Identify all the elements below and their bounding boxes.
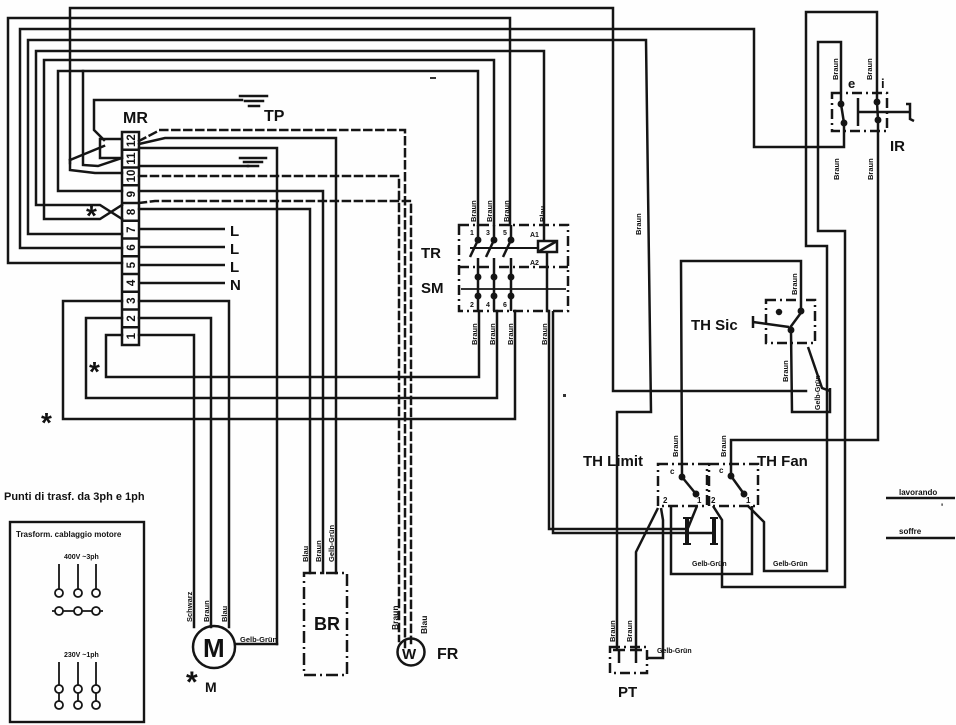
IR contact e bbox=[839, 102, 846, 125]
dashed wire MR cell12 to FR fan lead bbox=[139, 130, 405, 647]
label BR bbox=[314, 614, 340, 634]
TH Sic switch box bbox=[766, 300, 815, 343]
rotated wire labels Braun above TR bbox=[469, 200, 547, 222]
svg-text:A1: A1 bbox=[530, 232, 539, 239]
wire MR cell1 right to motor M black lead bbox=[139, 335, 194, 627]
wire TH Limit pole1 slant to SM pair bar bbox=[688, 506, 697, 528]
wire MR cell8 to TR pole2 via left nest (crossing) bbox=[44, 60, 494, 225]
svg-text:Gelb-Grün: Gelb-Grün bbox=[657, 648, 692, 655]
svg-text:Blau: Blau bbox=[538, 205, 547, 222]
contactor TR/SM box bbox=[459, 225, 568, 311]
TH Fan contacts and blade bbox=[729, 474, 746, 496]
svg-text:Braun: Braun bbox=[540, 323, 549, 345]
wire MR cell2 right to motor M brown lead bbox=[139, 318, 211, 627]
svg-text:Braun: Braun bbox=[506, 323, 515, 345]
TH Limit contacts and blade bbox=[680, 475, 698, 496]
rotated labels Braun below IR box bbox=[832, 158, 875, 180]
svg-text:SM: SM bbox=[421, 280, 444, 297]
IR relay box bbox=[832, 93, 887, 131]
svg-text:Blau: Blau bbox=[220, 605, 229, 622]
svg-text:Gelb-Grün: Gelb-Grün bbox=[327, 524, 336, 562]
svg-text:Braun: Braun bbox=[390, 605, 400, 630]
IR contact i bbox=[875, 100, 880, 122]
rotated label Braun below TH Sic bbox=[781, 360, 790, 382]
svg-text:L: L bbox=[230, 259, 239, 276]
svg-text:2: 2 bbox=[663, 496, 668, 505]
rotated label Braun above TH Limit bbox=[671, 435, 680, 457]
label PT bbox=[618, 684, 637, 701]
label Trasform cablaggio motore bbox=[16, 530, 122, 539]
svg-text:Braun: Braun bbox=[469, 200, 478, 222]
rotated labels Braun above PT bbox=[608, 620, 634, 642]
connector bar on SM pair right bbox=[712, 519, 716, 543]
svg-text:i: i bbox=[881, 76, 885, 91]
label MR bbox=[123, 110, 148, 127]
label FR bbox=[437, 646, 459, 663]
wire MR cell3 right to motor M blue lead bbox=[139, 301, 229, 627]
MR cell5 stub wire to L bbox=[139, 264, 225, 267]
legend 1ph pins bbox=[55, 662, 100, 709]
legend lavorando underline bbox=[886, 497, 955, 500]
label IR bbox=[890, 138, 905, 155]
svg-text:1: 1 bbox=[470, 230, 474, 237]
svg-text:Gelb-Grün: Gelb-Grün bbox=[815, 375, 822, 410]
asterisk below motor bbox=[186, 666, 198, 699]
svg-text:Braun: Braun bbox=[781, 360, 790, 382]
label TR bbox=[421, 245, 441, 262]
label TH Sic bbox=[691, 317, 738, 334]
dashed wire MR cell8 to FR fan lead bbox=[139, 201, 411, 643]
motor M circle bbox=[193, 626, 235, 668]
contactor linkage bar to coil bbox=[470, 247, 538, 249]
wire TH Sic moving contact down to lower junction bbox=[791, 331, 830, 412]
wire MR cell7 to SM coil via left nest (crossing) bbox=[36, 51, 544, 239]
svg-text:BR: BR bbox=[314, 614, 340, 634]
svg-text:Braun: Braun bbox=[865, 58, 874, 80]
svg-text:6: 6 bbox=[503, 302, 507, 309]
wire MR cell12 to BR yellow-green lead bbox=[139, 138, 336, 573]
svg-text:Braun: Braun bbox=[831, 58, 840, 80]
small speck top middle bbox=[430, 77, 436, 79]
asterisk on cell1 loop corner bbox=[89, 356, 100, 387]
svg-text:Braun: Braun bbox=[866, 158, 875, 180]
svg-text:2: 2 bbox=[711, 496, 716, 505]
legend 3ph link bar bbox=[52, 607, 103, 615]
svg-text:c: c bbox=[670, 467, 675, 476]
label M small below motor bbox=[205, 679, 217, 695]
svg-text:TP: TP bbox=[264, 108, 285, 125]
svg-text:2: 2 bbox=[470, 302, 474, 309]
ground TP symbol bbox=[240, 96, 267, 106]
wire IR i top loop (outer) from TH Fan pole1 bbox=[748, 12, 877, 571]
svg-text:5: 5 bbox=[503, 230, 507, 237]
svg-text:Punti di trasf. da 3ph e 1ph: Punti di trasf. da 3ph e 1ph bbox=[4, 491, 145, 503]
label lavorando bbox=[899, 488, 937, 497]
MR cell7 stub wire to L bbox=[139, 228, 225, 231]
MR terminal block cells 1-12 bbox=[122, 132, 139, 345]
legend outer box bbox=[10, 522, 144, 722]
wire MR cell9 to TR pole1 via left nest bbox=[58, 71, 478, 225]
svg-text:*: * bbox=[86, 200, 97, 231]
SM coil bbox=[538, 241, 557, 252]
rotated label Gelb-Gruen on slant bbox=[815, 375, 822, 410]
svg-text:Braun: Braun bbox=[485, 200, 494, 222]
svg-text:11: 11 bbox=[126, 152, 138, 165]
legend 3ph pins bbox=[55, 564, 100, 597]
svg-text:Braun: Braun bbox=[832, 158, 841, 180]
svg-text:Braun: Braun bbox=[625, 620, 634, 642]
contactor internal horizontal bbox=[461, 288, 566, 290]
svg-text:MR: MR bbox=[123, 110, 148, 127]
TH Limit switch box bbox=[658, 464, 707, 506]
svg-text:TH Fan: TH Fan bbox=[757, 453, 808, 470]
asterisk at MR cells 7-8 wire crossing bbox=[86, 200, 97, 231]
legend soffre underline bbox=[886, 537, 955, 540]
labels c 2 1 of TH Fan bbox=[711, 466, 751, 505]
PT terminal 2 bbox=[630, 650, 642, 663]
dashed wire MR cell10 to FR fan lead bbox=[139, 176, 399, 641]
svg-text:TR: TR bbox=[421, 245, 441, 262]
svg-text:M: M bbox=[205, 679, 217, 695]
svg-text:lavorando: lavorando bbox=[899, 488, 937, 497]
wire MR cell9 to BR brown lead bbox=[139, 191, 323, 573]
svg-text:Braun: Braun bbox=[502, 200, 511, 222]
BR heater box bbox=[304, 573, 347, 675]
svg-text:TH Sic: TH Sic bbox=[691, 317, 738, 334]
wire from MR funnel across top to TH Sic lower box (long loop) bbox=[70, 8, 806, 391]
wire MR cell12 to motor yellow-green loop bbox=[139, 148, 277, 644]
svg-text:Braun: Braun bbox=[488, 323, 497, 345]
svg-text:N: N bbox=[230, 277, 241, 294]
asterisk on cell3 loop corner bbox=[41, 407, 52, 438]
svg-text:10: 10 bbox=[126, 170, 138, 183]
svg-text:12: 12 bbox=[126, 134, 138, 147]
TH Fan switch box bbox=[709, 464, 758, 506]
wire MR cell1 left loop to TR pole1 bottom bbox=[106, 311, 479, 377]
MR cell4 stub wire to N bbox=[139, 282, 225, 285]
wire TH Sic yellow-green slant bbox=[808, 347, 830, 391]
svg-text:9: 9 bbox=[126, 191, 138, 197]
label 230V 1ph bbox=[64, 652, 99, 659]
svg-text:1: 1 bbox=[697, 496, 702, 505]
wire MR 11-12 funnel fan bbox=[70, 146, 122, 173]
svg-text:Braun: Braun bbox=[671, 435, 680, 457]
MR cell6 stub wire to L bbox=[139, 246, 225, 249]
wire TH Limit yellow-green U loop to TH Fan box bbox=[671, 506, 752, 574]
svg-text:*: * bbox=[89, 356, 100, 387]
label Gelb-Gruen under TH Limit bbox=[692, 561, 727, 568]
svg-text:PT: PT bbox=[618, 684, 637, 701]
svg-text:8: 8 bbox=[126, 208, 138, 215]
MR terminal numbers 12 down to 1 bbox=[126, 134, 138, 339]
svg-text:230V ~1ph: 230V ~1ph bbox=[64, 652, 99, 659]
wire second conductor of SM pair bbox=[553, 311, 714, 533]
wire motor yellow-green loop to M body bbox=[236, 643, 277, 646]
label Gelb-Gruen under TH Fan bbox=[773, 561, 808, 568]
wire MR cell5 to IR contact e lower pin via top loop bbox=[20, 29, 844, 248]
svg-text:Gelb-Grün: Gelb-Grün bbox=[240, 635, 278, 644]
label Gelb-Gruen at motor loop bbox=[240, 635, 278, 644]
label soffre bbox=[899, 527, 922, 536]
TR pole 2 contact bbox=[486, 225, 496, 311]
label TH Fan bbox=[757, 453, 808, 470]
svg-text:W: W bbox=[402, 646, 417, 663]
svg-text:Braun: Braun bbox=[790, 273, 799, 295]
labels L L L N bbox=[230, 223, 241, 294]
label Punti di trasf bbox=[4, 491, 145, 503]
wire IR i bottom to TH Fan common c bbox=[731, 120, 878, 476]
svg-text:3: 3 bbox=[126, 297, 138, 303]
rotated labels Schwarz Braun Blau at motor leads bbox=[185, 591, 229, 622]
svg-text:soffre: soffre bbox=[899, 527, 922, 536]
PT box bbox=[610, 647, 647, 673]
svg-text:1: 1 bbox=[126, 332, 138, 339]
wire SM coil to lower pair bbox=[547, 253, 687, 529]
IR actuator bars and lever bbox=[858, 98, 914, 126]
svg-text:M: M bbox=[203, 633, 225, 663]
svg-text:FR: FR bbox=[437, 646, 459, 663]
label 400V 3ph bbox=[64, 554, 99, 561]
svg-text:*: * bbox=[41, 407, 52, 438]
wire funnel drop to MR stub box bbox=[83, 71, 122, 166]
wire IR e top loop (inner) from TH Fan pole2 bbox=[713, 42, 845, 587]
label TP bbox=[264, 108, 285, 125]
rotated wire labels Braun below TR bbox=[470, 323, 549, 345]
svg-text:Braun: Braun bbox=[608, 620, 617, 642]
svg-text:4: 4 bbox=[126, 279, 138, 286]
svg-text:Gelb-Grün: Gelb-Grün bbox=[692, 561, 727, 568]
wire MR cell11 to chassis ground bbox=[139, 165, 248, 168]
wire TH Sic feed from TH Limit common (tall left side) bbox=[681, 261, 801, 476]
tick below lavorando bbox=[941, 502, 943, 512]
svg-text:Gelb-Grün: Gelb-Grün bbox=[773, 561, 808, 568]
label Gelb-Gruen right of PT bbox=[657, 648, 692, 655]
connector bar on SM pair left bbox=[685, 519, 689, 543]
labels c 2 1 of TH Limit bbox=[663, 467, 702, 505]
svg-text:Blau: Blau bbox=[301, 545, 310, 562]
wire TH Limit pole2 down to PT yellow-green junction bbox=[647, 508, 663, 658]
svg-text:e: e bbox=[848, 76, 855, 91]
PT terminal 1 bbox=[613, 650, 625, 663]
svg-text:Braun: Braun bbox=[719, 435, 728, 457]
TR pole 1 contact bbox=[470, 225, 480, 311]
svg-text:L: L bbox=[230, 223, 239, 240]
wire MR cell4 to TR pole3 via outermost left nest bbox=[8, 18, 510, 263]
wire MR cell6 to PT terminal 1 via top loop and right drop bbox=[28, 40, 651, 649]
TH Sic switch contacts and blade bbox=[753, 309, 803, 332]
pin labels A1 A2 bbox=[470, 230, 539, 309]
svg-text:6: 6 bbox=[126, 244, 138, 250]
rotated labels Braun above IR box bbox=[831, 58, 874, 80]
rotated labels Blau Braun Gelb-Gruen above BR bbox=[301, 524, 336, 562]
MR stub box left of cells 11-12 bbox=[100, 139, 122, 158]
svg-text:5: 5 bbox=[126, 261, 138, 268]
svg-text:Braun: Braun bbox=[470, 323, 479, 345]
label e bbox=[848, 76, 855, 91]
wire MR cell3 left loop to TR pole3 bottom bbox=[63, 301, 515, 419]
svg-text:TH Limit: TH Limit bbox=[583, 453, 643, 470]
svg-text:2: 2 bbox=[126, 315, 138, 321]
svg-text:Trasform. cablaggio motore: Trasform. cablaggio motore bbox=[16, 530, 122, 539]
svg-text:7: 7 bbox=[126, 226, 138, 232]
label TH Limit bbox=[583, 453, 643, 470]
ground symbol at MR cell11 wire bbox=[240, 158, 266, 166]
svg-text:A2: A2 bbox=[530, 260, 539, 267]
label SM bbox=[421, 280, 444, 297]
svg-text:3: 3 bbox=[486, 230, 490, 237]
rotated labels Braun Blau at FR leads bbox=[390, 605, 429, 634]
FR fan circle bbox=[398, 639, 425, 666]
wire TH Limit pole2 second drop to PT terminal 2 bbox=[636, 508, 658, 649]
rotated label Braun above TH Sic switch bbox=[790, 273, 799, 295]
svg-text:IR: IR bbox=[890, 138, 905, 155]
svg-text:400V ~3ph: 400V ~3ph bbox=[64, 554, 99, 561]
wire TP ground feed from MR funnel bbox=[94, 100, 242, 140]
svg-text:4: 4 bbox=[486, 302, 490, 309]
wire MR cell8 to BR blue lead bbox=[139, 209, 310, 573]
svg-text:Blau: Blau bbox=[419, 616, 429, 634]
label M inside motor bbox=[203, 633, 225, 663]
svg-text:': ' bbox=[941, 502, 943, 512]
rotated label Braun above TH Fan feed bbox=[719, 435, 728, 457]
wire MR cell2 left loop to TR pole2 bottom bbox=[86, 311, 497, 398]
svg-text:L: L bbox=[230, 241, 239, 258]
small speck center bbox=[563, 394, 566, 397]
svg-text:Braun: Braun bbox=[314, 540, 323, 562]
svg-text:*: * bbox=[186, 666, 198, 699]
svg-text:Braun: Braun bbox=[202, 600, 211, 622]
svg-text:Schwarz: Schwarz bbox=[185, 591, 194, 622]
rotated label Braun on long right drop wire bbox=[634, 213, 643, 235]
label W inside FR bbox=[402, 646, 417, 663]
svg-text:1: 1 bbox=[746, 496, 751, 505]
svg-text:Braun: Braun bbox=[634, 213, 643, 235]
TR pole 3 contact bbox=[503, 225, 513, 311]
label i bbox=[881, 76, 885, 91]
svg-text:c: c bbox=[719, 466, 724, 475]
